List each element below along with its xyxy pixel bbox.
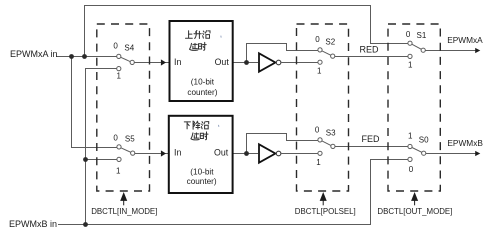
svg-text:DBCTL[IN_MODE]: DBCTL[IN_MODE] (91, 207, 157, 216)
svg-text:Out: Out (214, 147, 229, 157)
svg-text:EPWMxB: EPWMxB (447, 138, 483, 148)
svg-text:DBCTL[POLSEL]: DBCTL[POLSEL] (295, 207, 356, 216)
svg-text:1: 1 (116, 166, 121, 175)
svg-text:0: 0 (315, 126, 320, 135)
svg-text:S2: S2 (325, 38, 335, 47)
svg-text:DBCTL[OUT_MODE]: DBCTL[OUT_MODE] (377, 207, 452, 216)
svg-text:1: 1 (408, 61, 413, 70)
svg-text:counter): counter) (187, 88, 217, 97)
svg-text:EPWMxA in: EPWMxA in (10, 49, 58, 59)
svg-text:S1: S1 (417, 31, 427, 40)
svg-text:RED: RED (360, 45, 380, 55)
svg-text:In: In (174, 57, 181, 67)
svg-text:0: 0 (409, 165, 414, 174)
svg-text:S5: S5 (125, 135, 135, 144)
svg-text:FED: FED (362, 134, 381, 144)
svg-text:1: 1 (408, 131, 413, 140)
svg-text:1: 1 (316, 158, 321, 167)
svg-text:(10-bit: (10-bit (190, 168, 214, 177)
svg-text:counter): counter) (187, 177, 217, 186)
svg-text:S4: S4 (124, 44, 134, 53)
svg-text:EPWMxB in: EPWMxB in (9, 219, 57, 229)
svg-text:S3: S3 (326, 129, 336, 138)
svg-text:0: 0 (113, 41, 118, 50)
svg-text:In: In (174, 147, 181, 157)
svg-text:1: 1 (117, 71, 122, 80)
svg-text:Out: Out (215, 57, 230, 67)
svg-text:1: 1 (317, 66, 322, 75)
svg-text:S0: S0 (419, 135, 429, 144)
svg-text:0: 0 (406, 30, 411, 39)
svg-text:(10-bit: (10-bit (191, 78, 215, 87)
svg-text:0: 0 (315, 35, 320, 44)
svg-text:EPWMxA: EPWMxA (447, 35, 483, 45)
svg-text:0: 0 (113, 133, 118, 142)
